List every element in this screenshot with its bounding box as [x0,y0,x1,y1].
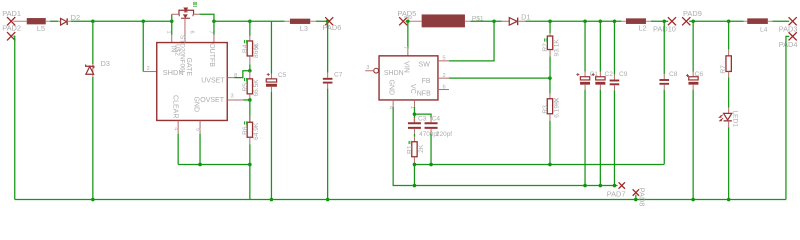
svg-text:3: 3 [366,65,369,71]
origin cross at R4 [254,45,258,49]
svg-text:64.9K: 64.9K [253,122,260,140]
pin 6 NFB stub [438,84,449,90]
junction R7 top [727,19,731,23]
pin 3 SHDN stub with bubble [365,65,378,73]
pin 5 GND stub [194,120,200,133]
svg-text:2: 2 [147,66,150,72]
svg-text:6: 6 [442,84,445,90]
wire VIN column [407,21,409,49]
pin 1 VC stub [409,100,415,109]
wire L4 to PAD3 [772,20,789,22]
svg-text:R4: R4 [242,44,249,53]
junction R4/R5/UVSET [248,69,252,73]
capacitor C5 [266,72,287,92]
svg-text:SHDN: SHDN [384,70,404,77]
ERC mark at US2 [193,2,196,7]
svg-text:NFB: NFB [417,90,431,97]
svg-text:CLEAR: CLEAR [171,95,178,118]
svg-text:L2: L2 [638,24,646,33]
svg-text:PAD7: PAD7 [607,189,626,198]
junction R3 bottom [548,163,552,167]
wire L2 to PAD10 [651,20,668,22]
svg-text:PAD4: PAD4 [779,40,798,49]
wire C5 column top [270,21,272,74]
wire PAD9 to L4 [689,20,743,22]
junction R6 at link [248,163,252,167]
inductor L3 [285,19,316,33]
svg-text:C5: C5 [278,72,287,79]
wire FB to R2/R3 [449,77,550,79]
junction C1 bottom [583,184,587,188]
op-amp U1 box (switching regulator) [379,56,438,100]
wire IN pin column [171,21,173,35]
origin cross at R3 [554,98,558,102]
wire GND pin down and right to PAD7 [393,107,617,186]
resistor R7 [720,21,732,77]
svg-text:C9: C9 [619,71,628,78]
pad PAD3 [779,17,798,34]
wire D3 column lower [92,77,94,200]
wire VC node to C4 [414,114,431,117]
junction C7 at PAD6 [326,19,330,23]
svg-text:PAD3: PAD3 [779,25,798,34]
wire OVSET to R5/R6 junction [243,99,250,101]
svg-text:1: 1 [166,31,172,34]
wire LED1 to bottom bus [728,127,730,199]
junction C9 top [613,19,617,23]
wire C5 column bottom [270,92,272,200]
svg-text:D1: D1 [521,13,530,22]
wire L3 to PAD6 [316,20,328,22]
junction C1 top [583,19,587,23]
svg-text:R3: R3 [542,105,549,114]
resistor R2 [542,21,560,78]
capacitor C9 [610,21,628,185]
svg-text:GND: GND [387,79,394,95]
junction VIN at PAD5 [406,19,410,23]
svg-text:66.5K: 66.5K [253,79,260,97]
pad PAD7 [607,182,626,198]
junction C5 at bottom bus [270,198,274,202]
wire D3 column upper [92,21,94,64]
svg-text:5: 5 [194,128,200,131]
junction C9 bottom [613,184,617,188]
junction at D3 top [91,19,95,23]
pad PAD5 [397,9,416,25]
resistor R1 [407,137,425,164]
transistor US2 name and value labels [174,35,186,75]
junction R2 top [548,19,552,23]
resistor R3 [542,78,560,164]
junction R4 top [248,19,252,23]
wire UVSET jog to R4/R5 junction [234,71,250,78]
svg-text:L5: L5 [37,24,45,33]
wire SHDN column [142,21,144,71]
svg-text:2: 2 [442,73,445,79]
pad PAD8 [633,188,647,207]
pin 4 GND stub [387,100,393,109]
junction at FET drain / IN pin [170,19,174,23]
svg-text:C6: C6 [695,71,704,78]
pad PAD4 [779,32,798,49]
ERC mark at R4 [244,40,247,43]
capacitor C7 [323,71,343,88]
svg-text:C7: C7 [334,71,343,78]
wire R4 to junction [249,64,251,70]
wire C7 column bottom [327,89,329,200]
capacitor C1 [576,21,598,185]
svg-text:6: 6 [188,31,194,34]
svg-text:7: 7 [402,46,408,49]
capacitor C4 [425,116,453,138]
ERC mark at R5 [244,78,247,81]
wire C4 down [430,134,432,165]
junction R1 bottom [413,163,417,167]
gate wire red [184,18,186,42]
svg-text:866K: 866K [253,42,260,58]
wire C3 to R1 [413,134,415,137]
pad PAD2 [2,23,21,40]
wire R4 column from top bus [249,21,251,36]
wire OUTFB column [213,21,215,35]
pad PAD10 [653,17,676,34]
svg-text:2K: 2K [418,144,425,153]
svg-text:PAD1: PAD1 [2,9,21,18]
pad PAD9 [682,9,702,25]
svg-text:LED1: LED1 [731,110,738,127]
pin 7 VIN stub [402,46,408,56]
svg-text:220pf: 220pf [436,131,452,138]
capacitor C8 [659,21,677,90]
junction OUTFB / source [212,19,216,23]
junction C2 top [599,19,603,23]
pin 2 SHDN stub [143,66,157,72]
svg-text:D3: D3 [100,59,109,68]
wire PAD1 to L5 pin [13,20,27,22]
pad PAD1 [2,9,21,26]
svg-text:PAD2: PAD2 [2,23,21,32]
svg-text:C2: C2 [605,71,614,78]
wire D2 to FET drain (top bus left) [71,20,172,22]
inductor L5 [27,18,50,33]
junction PAD8 at bottom bus [634,198,638,202]
diode D2 [58,13,80,25]
svg-text:D2: D2 [71,13,80,22]
wire PS1 to D1 [470,20,501,22]
zener diode D3 [86,59,110,77]
junction FB/R2/R3 [548,76,552,80]
svg-text:FB: FB [422,78,431,85]
wire C8 down to gnd line corner [663,90,665,165]
svg-text:PAD9: PAD9 [683,9,702,18]
pin 8 UVSET stub [227,73,237,79]
junction C7 at bottom bus [326,198,330,202]
svg-text:R2: R2 [542,43,549,52]
svg-text:4: 4 [172,127,178,130]
capacitor C6 [686,21,703,199]
wire L5 to D2 [50,20,58,22]
wire SW up to bus [449,21,494,61]
wire VC to compensation node [413,107,415,114]
svg-text:7: 7 [207,31,213,34]
wire FET source to OUTFB junction [200,14,214,21]
junction D3 at bottom bus [91,198,95,202]
svg-text:OUTFB: OUTFB [208,43,215,67]
svg-text:C4: C4 [432,116,441,123]
svg-text:L3: L3 [300,24,308,33]
pin 1 IN stub [166,31,172,43]
wire PAD4 down to bottom bus [786,36,789,199]
diode D1 [502,13,531,26]
LED LED1 [719,108,738,128]
svg-text:OVSET: OVSET [200,97,224,104]
pad PAD6 [323,17,342,32]
resistor R4 [242,36,260,65]
wire R1 node down to gnd line [413,164,415,185]
svg-text:VC: VC [409,84,416,94]
junction C2 bottom [599,184,603,188]
svg-text:L4: L4 [760,26,768,33]
ERC mark at R6 [244,121,247,124]
wire top bus middle segment [214,20,285,22]
wire D1 to R2 junction [525,20,621,22]
wire PAD2 down to bottom bus [13,36,14,199]
junction R5/R6/OVSET [248,98,252,102]
pin 4 CLEAR stub [172,120,178,133]
svg-text:P$2: P$2 [404,15,413,20]
wire C7 column top [327,21,329,73]
svg-text:5: 5 [442,55,445,61]
svg-text:GND: GND [193,96,200,112]
junction at SHDN column [141,19,145,23]
junction SW at bus [492,19,496,23]
svg-text:6.19K: 6.19K [553,100,560,118]
svg-text:3: 3 [230,93,233,99]
wire R6 link down to bottom bus [249,164,251,199]
svg-text:R5: R5 [242,83,249,92]
transistor US2 (STD20NF06L) [172,8,200,18]
resistor R5 [242,71,260,100]
wire compensation ground line [414,163,664,164]
inductor L4 [744,18,773,33]
wire bottom bus [15,199,786,201]
svg-text:C3: C3 [418,116,427,123]
wire CLEAR down [177,134,179,165]
wire GND pin down [199,134,201,165]
pin 7 OUTFB stub [207,31,214,43]
junction GND pin at link [198,163,202,167]
wire ground link horizontal [178,163,250,165]
svg-text:C8: C8 [669,71,678,78]
wire FET drain vertical [171,14,173,21]
junction VC node [413,112,417,116]
junction C8 top [662,19,666,23]
pin 2 FB stub [438,73,449,79]
ERC mark at R2 [544,38,547,41]
junction gnd line at R1 column [413,184,417,188]
op-amp U3 box (protection controller) [157,43,228,121]
capacitor C2 [592,21,614,185]
svg-text:UVSET: UVSET [201,77,225,84]
inductor L2 [621,18,651,32]
junction C6 top [691,19,695,23]
transformer PS1 [405,14,484,27]
svg-text:SW: SW [419,62,431,69]
svg-text:R6: R6 [242,126,249,135]
ERC mark at R1 [409,141,412,144]
wire PAD8 to bottom bus [635,195,637,200]
wire R7 to LED1 [728,77,730,107]
capacitor C3 [408,114,439,138]
svg-text:93.1K: 93.1K [553,39,560,57]
svg-text:PAD6: PAD6 [323,23,342,32]
resistor R6 [242,100,260,165]
pin 3 OVSET stub [227,93,243,100]
svg-text:STD20NF06L: STD20NF06L [178,35,185,75]
junction C6 at bottom bus [691,198,695,202]
svg-text:R7: R7 [720,65,727,74]
svg-text:VIN: VIN [403,61,410,73]
svg-text:R1: R1 [407,145,414,154]
pin 5 SW stub [438,55,449,61]
junction LED1 at bottom bus [727,198,731,202]
junction C4 bottom [429,163,433,167]
svg-text:PAD8: PAD8 [638,188,647,207]
